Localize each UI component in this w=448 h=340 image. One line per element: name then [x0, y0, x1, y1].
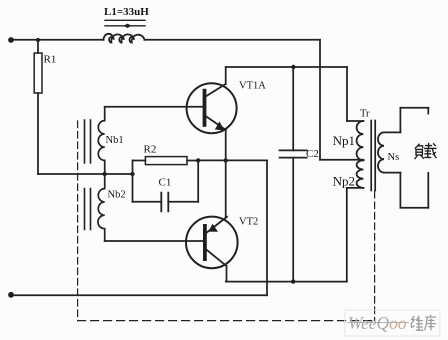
transistor VT2 collector vertical [226, 266, 228, 282]
winding Np2 [357, 160, 364, 188]
node C2 top junction [291, 65, 295, 69]
node emitter bus junction [224, 158, 228, 162]
transistor VT2 circle [186, 217, 238, 269]
wire load top-left vertical [399, 108, 401, 133]
wire bottom rail [11, 294, 267, 296]
svg-text:C2: C2 [306, 148, 319, 160]
core lines left transformer upper [85, 120, 91, 163]
svg-text:Tr: Tr [360, 109, 370, 120]
wire load bottom-left vertical [399, 173, 401, 208]
winding Nb2 [98, 174, 105, 241]
svg-text:C1: C1 [159, 177, 172, 189]
inductor L1 core bar upper [105, 19, 145, 21]
wire RC left vertical [132, 161, 134, 202]
winding Ns [378, 132, 384, 172]
capacitor C2 top lead [292, 67, 294, 150]
transistor VT2 emitter arrow [208, 224, 218, 232]
node C2 bottom junction [291, 279, 295, 283]
dashed coupling line left [77, 121, 79, 321]
capacitor C1 [161, 193, 168, 212]
wire center tap horizontal [320, 159, 363, 161]
winding Nb1 [98, 107, 104, 174]
wire R1 bottom stem [37, 93, 39, 174]
wire R2 left lead [133, 160, 146, 162]
svg-text:VT1A: VT1A [239, 81, 266, 92]
wire Np1 top horizontal [347, 120, 363, 122]
watermark ku (Chinese char drawn as strokes) [424, 315, 436, 331]
wire RC right vertical [197, 161, 199, 202]
terminal node bottom-left [8, 292, 14, 298]
transistor VT1A circle [187, 83, 237, 133]
transistor VT2 collector diagonal [207, 250, 227, 266]
wire Nb2 bottom to VT2 base [105, 240, 203, 242]
svg-text:R1: R1 [44, 54, 57, 66]
wire feedback mid horizontal [38, 173, 133, 175]
dashed coupling line bottom [78, 320, 375, 322]
capacitor C2 bottom lead [292, 158, 294, 282]
svg-text:L1=33uH: L1=33uH [104, 6, 149, 18]
wire load top-right stub [427, 108, 429, 114]
winding Np1 [357, 121, 364, 160]
transistor VT1A collector diagonal [206, 84, 225, 96]
transformer Tr core [371, 121, 375, 191]
node winding midpoint [103, 172, 107, 176]
wire R2 right lead [187, 160, 198, 162]
svg-text:Nb1: Nb1 [106, 135, 124, 146]
node RC right junction [196, 158, 200, 162]
svg-text:Np1: Np1 [333, 133, 355, 148]
svg-text:VT2: VT2 [239, 216, 258, 227]
transistor VT2 emitter diagonal [207, 217, 227, 233]
wire collector top horizontal [226, 66, 347, 68]
wire supply drop vertical [319, 40, 321, 160]
wire top rail right segment [145, 39, 321, 41]
svg-text:Ns: Ns [388, 152, 400, 163]
capacitor C2 [280, 150, 307, 157]
terminal node top-left [8, 37, 14, 43]
wire emitter bus vertical [225, 130, 227, 217]
svg-text:Nb2: Nb2 [108, 190, 126, 201]
inductor L1 core center diamond [124, 24, 132, 28]
capacitor C1 left lead [133, 201, 162, 203]
transistor VT1A collector vertical [225, 67, 227, 84]
wire lower tank horizontal [226, 281, 347, 283]
wire top rail left segment [11, 39, 104, 41]
wire load bottom horizontal [400, 207, 428, 209]
node R1 top junction [36, 38, 40, 42]
wire Np1 top vertical [346, 67, 348, 121]
wire emitter node horizontal [198, 159, 267, 161]
wire Nb1 top to VT1A base [105, 106, 203, 108]
load label fu (Chinese char drawn as strokes) [415, 144, 423, 158]
resistor R1 top stem [37, 40, 39, 53]
capacitor C1 right lead [168, 201, 198, 203]
watermark wei (Chinese char drawn as strokes) [411, 316, 423, 331]
wire Np2 bottom vertical [346, 188, 348, 282]
resistor R2 [145, 157, 187, 165]
transistor VT2 base bar [203, 224, 207, 261]
inductor L1 coil [104, 34, 145, 43]
dashed coupling line right [374, 192, 376, 321]
wire emitter node down vertical [266, 160, 268, 295]
watermark box [345, 310, 440, 336]
wire load bottom-right vertical [427, 173, 429, 208]
transistor VT1A emitter diagonal [206, 117, 225, 130]
svg-text:R2: R2 [144, 144, 157, 156]
wire Np2 bottom horizontal [347, 187, 364, 189]
wire Ns top lead [384, 131, 400, 133]
transistor VT1A base bar [203, 89, 207, 127]
core lines left transformer lower [85, 189, 91, 230]
node RC left junction [130, 172, 134, 176]
transistor VT1A emitter arrow [215, 122, 225, 131]
wire load top horizontal [400, 107, 428, 109]
resistor R1 [34, 53, 42, 93]
wire Ns bottom lead [384, 172, 400, 174]
load label zai (Chinese char drawn as strokes) [425, 144, 436, 158]
watermark strike line [347, 322, 409, 324]
svg-text:Np2: Np2 [333, 174, 355, 189]
inductor L1 core bar lower [105, 25, 145, 27]
